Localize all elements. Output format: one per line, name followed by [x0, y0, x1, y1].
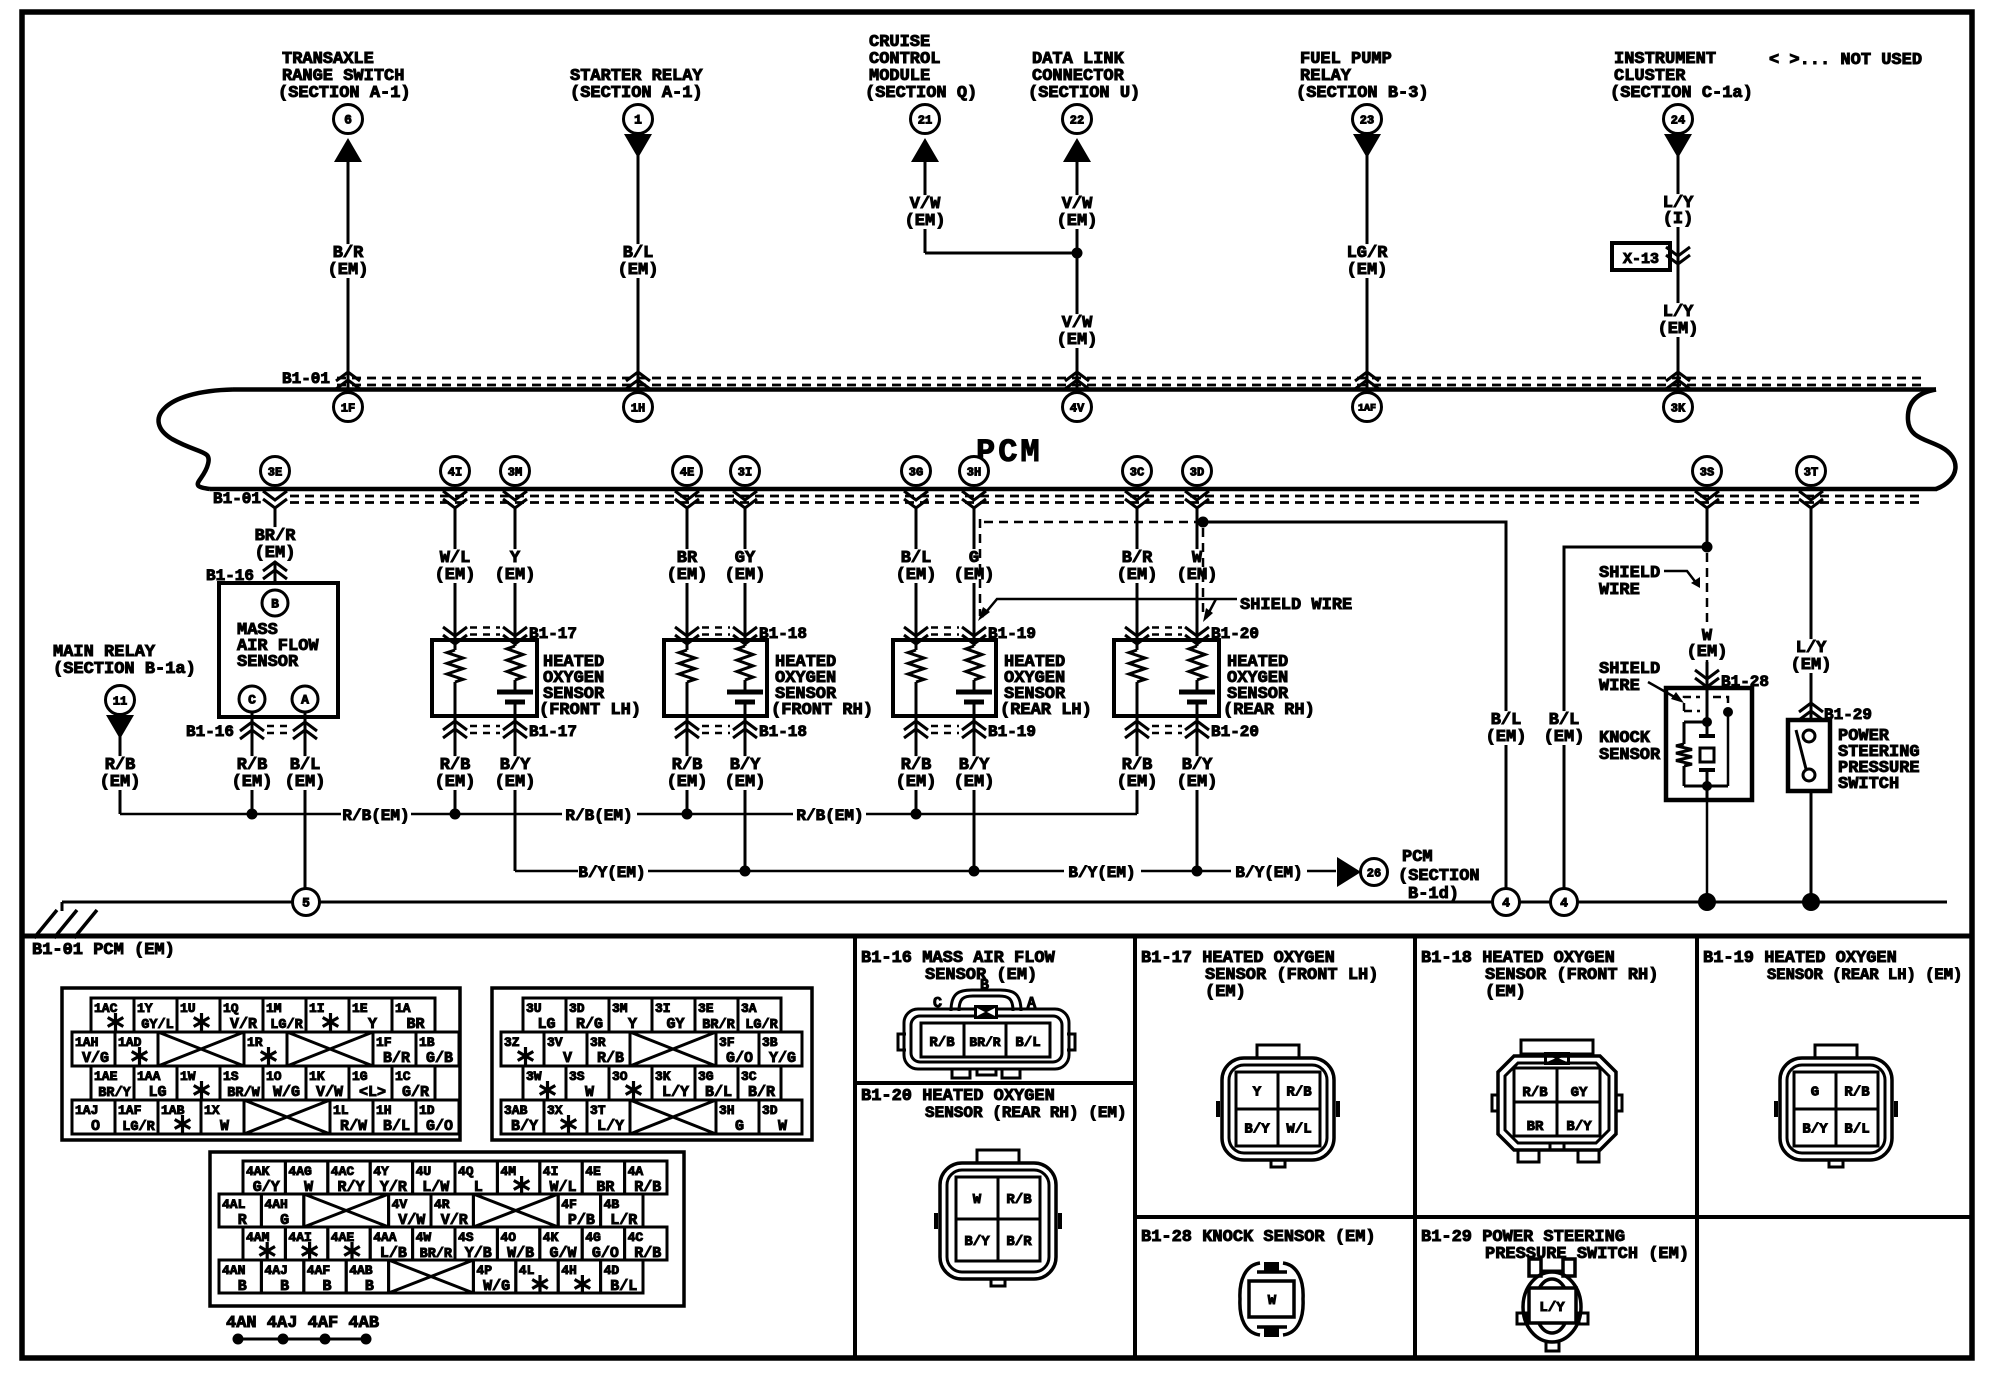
- svg-text:PCM: PCM: [1402, 848, 1433, 867]
- svg-text:B1-01: B1-01: [213, 490, 261, 508]
- transaxle range switch label: [278, 50, 411, 103]
- svg-text:SENSOR: SENSOR: [1599, 746, 1661, 765]
- svg-text:SENSOR: SENSOR: [237, 653, 299, 672]
- arrow up to transaxle range switch: [334, 138, 362, 162]
- column divider 3: [1413, 936, 1417, 1358]
- svg-text:1M: 1M: [266, 1001, 282, 1016]
- connector B1-28 chevron: [1695, 662, 1769, 691]
- svg-text:1F: 1F: [341, 401, 355, 415]
- column divider 4: [1695, 936, 1699, 1358]
- svg-text:1AF: 1AF: [1358, 404, 1376, 415]
- svg-text:(FRONT LH): (FRONT LH): [539, 701, 641, 720]
- ground junction PSP switch: [1802, 893, 1820, 911]
- svg-text:3M: 3M: [508, 465, 522, 479]
- ground bus line: [62, 901, 1947, 904]
- svg-text:WIRE: WIRE: [1599, 677, 1640, 696]
- svg-text:(EM): (EM): [1544, 728, 1585, 747]
- svg-text:(EM): (EM): [1117, 773, 1158, 792]
- PCM pin 4I: [441, 457, 470, 486]
- svg-text:SHIELD WIRE: SHIELD WIRE: [1240, 596, 1352, 615]
- svg-text:1F: 1F: [376, 1035, 392, 1050]
- svg-text:B/Y: B/Y: [1802, 1122, 1828, 1138]
- svg-text:1C: 1C: [395, 1069, 411, 1084]
- svg-text:3D: 3D: [569, 1001, 585, 1016]
- svg-text:1G: 1G: [352, 1069, 368, 1084]
- svg-text:B/Y: B/Y: [1566, 1119, 1592, 1135]
- svg-text:B: B: [271, 597, 279, 612]
- wire W/L (EM) from bus to HO2S FRONT LH: [433, 508, 478, 640]
- knock sensor label: [1599, 729, 1661, 765]
- shield wire dashed at rear LH G wire: [979, 519, 982, 616]
- svg-text:W: W: [778, 1118, 787, 1135]
- svg-text:(EM): (EM): [667, 773, 708, 792]
- svg-text:R/W: R/W: [340, 1118, 367, 1135]
- svg-text:1E: 1E: [352, 1001, 368, 1016]
- svg-text:G: G: [735, 1118, 744, 1135]
- svg-text:(EM): (EM): [1205, 983, 1246, 1002]
- svg-text:(SECTION Q): (SECTION Q): [865, 84, 977, 103]
- svg-text:(SECTION: (SECTION: [1398, 867, 1480, 886]
- svg-text:23: 23: [1360, 113, 1374, 127]
- B1-18 heated oxygen sensor front RH connector drawing: [1492, 1040, 1622, 1162]
- svg-text:3C: 3C: [741, 1069, 757, 1084]
- connector B1-18 top chevrons: [675, 625, 807, 644]
- svg-text:1AF: 1AF: [118, 1103, 142, 1118]
- PCM pin 3M: [501, 457, 530, 486]
- MAF pin A: [292, 686, 318, 712]
- svg-text:B/R: B/R: [748, 1084, 775, 1101]
- cruise control module connector circle 21: [911, 105, 940, 134]
- junction R/B bus at front RH: [682, 809, 693, 820]
- svg-text:4I: 4I: [543, 1164, 559, 1179]
- junction 3S shield: [1702, 542, 1713, 553]
- svg-text:1U: 1U: [180, 1001, 196, 1016]
- PCM connector B1-01 top bus: [159, 370, 1956, 489]
- fuel pump relay connector circle 23: [1353, 105, 1382, 134]
- svg-text:W: W: [1268, 1293, 1277, 1309]
- svg-text:(EM): (EM): [435, 566, 476, 585]
- svg-text:(EM): (EM): [1177, 773, 1218, 792]
- shield wire label rear sensors: [978, 596, 1352, 622]
- svg-text:4AJ: 4AJ: [264, 1263, 287, 1278]
- connector B1-20 top chevrons: [1125, 625, 1259, 644]
- svg-text:G/B: G/B: [426, 1050, 453, 1067]
- svg-text:4K: 4K: [543, 1230, 559, 1245]
- svg-text:(SECTION A-1): (SECTION A-1): [570, 84, 703, 103]
- instrument cluster label: [1610, 50, 1753, 103]
- svg-text:(EM): (EM): [896, 566, 937, 585]
- svg-text:LG: LG: [537, 1016, 555, 1033]
- svg-text:G/R: G/R: [402, 1084, 429, 1101]
- svg-text:21: 21: [918, 113, 932, 127]
- svg-text:1R: 1R: [247, 1035, 263, 1050]
- svg-text:WIRE: WIRE: [1599, 581, 1640, 600]
- svg-text:3T: 3T: [590, 1103, 606, 1118]
- svg-text:R/B(EM): R/B(EM): [796, 807, 863, 825]
- svg-text:Y: Y: [628, 1016, 637, 1033]
- power steering pressure switch label: [1838, 727, 1920, 794]
- svg-text:1L: 1L: [333, 1103, 349, 1118]
- ground connector circle 5: [293, 889, 320, 916]
- svg-text:3F: 3F: [719, 1035, 735, 1050]
- PCM pin 3G: [902, 457, 931, 486]
- wire B/L (EM) from starter relay to 1H: [616, 155, 661, 391]
- PCM pin 1AF: [1353, 393, 1382, 422]
- svg-text:B/Y(EM): B/Y(EM): [1235, 864, 1302, 882]
- svg-text:3I: 3I: [655, 1001, 671, 1016]
- svg-text:B1-20: B1-20: [1211, 723, 1259, 741]
- svg-text:(EM): (EM): [725, 566, 766, 585]
- svg-text:1H: 1H: [631, 401, 645, 415]
- svg-text:W/G: W/G: [273, 1084, 300, 1101]
- ganged pins 4AN 4AJ 4AF 4AB: [226, 1314, 379, 1345]
- svg-text:22: 22: [1070, 113, 1084, 127]
- heated oxygen sensor (FRONT RH) label: [771, 653, 873, 720]
- svg-text:(EM): (EM): [1791, 656, 1832, 675]
- svg-text:(SECTION B-1a): (SECTION B-1a): [53, 660, 196, 679]
- heated oxygen sensor (REAR RH) label: [1223, 653, 1315, 720]
- PCM pin 3I: [731, 457, 760, 486]
- junction R/B bus at front LH: [450, 809, 461, 820]
- wire LG/R (EM) from fuel pump relay to 1AF: [1345, 155, 1390, 391]
- arrow to PCM section B-1d: [1337, 857, 1361, 887]
- svg-text:LG/R: LG/R: [122, 1120, 155, 1135]
- svg-text:3G: 3G: [909, 465, 923, 479]
- MAF pin C: [239, 686, 265, 712]
- svg-text:1D: 1D: [419, 1103, 435, 1118]
- svg-text:4U: 4U: [416, 1164, 432, 1179]
- svg-text:(EM): (EM): [667, 566, 708, 585]
- connector B1-17 top chevrons: [443, 625, 577, 644]
- wire B/Y (EM) from HO2S rear RH: [1175, 716, 1220, 871]
- svg-text:R/G: R/G: [576, 1016, 603, 1033]
- wire R/B (EM) from HO2S rear LH: [894, 716, 939, 814]
- wire B/Y (EM) from HO2S front LH: [493, 716, 538, 871]
- svg-text:4M: 4M: [500, 1164, 516, 1179]
- svg-text:B/L: B/L: [1015, 1035, 1040, 1051]
- svg-text:(SECTION A-1): (SECTION A-1): [278, 84, 411, 103]
- svg-text:4O: 4O: [500, 1230, 516, 1245]
- B1-18 section header: [1421, 949, 1658, 1002]
- svg-text:1AA: 1AA: [137, 1069, 161, 1084]
- wire W (EM) from bus to HO2S REAR RH: [1175, 508, 1220, 640]
- svg-text:4V: 4V: [392, 1197, 408, 1212]
- ground connector circle 4 left: [1493, 889, 1520, 916]
- column divider 2: [1133, 936, 1137, 1358]
- svg-text:3S: 3S: [1700, 465, 1714, 479]
- svg-text:1W: 1W: [180, 1069, 196, 1084]
- arrow down from fuel pump relay: [1353, 134, 1381, 158]
- B1-16 MAF connector drawing: [898, 977, 1075, 1078]
- svg-text:B1-28 KNOCK SENSOR (EM): B1-28 KNOCK SENSOR (EM): [1141, 1228, 1376, 1247]
- svg-text:4D: 4D: [604, 1263, 620, 1278]
- svg-text:B: B: [280, 1278, 289, 1295]
- shield wire dashed 3S: [1685, 553, 1730, 662]
- wire B/R (EM) from 1F to transaxle range switch: [326, 160, 371, 391]
- svg-text:V/R: V/R: [230, 1016, 257, 1033]
- svg-text:GY: GY: [1571, 1085, 1588, 1101]
- svg-text:R/B: R/B: [1844, 1085, 1870, 1101]
- svg-text:B1-19: B1-19: [988, 723, 1036, 741]
- svg-text:W: W: [973, 1192, 982, 1208]
- B1-20 heated oxygen sensor rear RH connector drawing: [936, 1150, 1060, 1286]
- transaxle range switch connector circle 6: [334, 105, 363, 134]
- svg-text:W/G: W/G: [483, 1278, 510, 1295]
- svg-text:4AA: 4AA: [373, 1230, 397, 1245]
- connector B1-19 bottom chevrons: [904, 721, 1036, 741]
- bottom section divider: [22, 934, 1972, 939]
- B1-16 section header: [861, 949, 1056, 985]
- junction B/Y bus at rear LH: [969, 866, 980, 877]
- svg-text:3K: 3K: [1671, 401, 1686, 415]
- shield wire label upper right: [1599, 564, 1700, 600]
- heated oxygen sensor (REAR LH): [893, 640, 996, 716]
- main relay connector circle 11: [106, 686, 135, 715]
- junction R/B bus at rear LH: [911, 809, 922, 820]
- svg-text:4R: 4R: [434, 1197, 450, 1212]
- svg-text:L/Y: L/Y: [1539, 1300, 1565, 1316]
- wire R/B (EM) from HO2S front LH: [433, 716, 478, 814]
- svg-text:4AK: 4AK: [246, 1164, 270, 1179]
- mass air flow sensor box: [219, 583, 338, 717]
- svg-text:(EM): (EM): [232, 773, 273, 792]
- B1-01 bottom bus connector chevrons: [263, 491, 1823, 508]
- fuel pump relay label: [1296, 50, 1429, 103]
- svg-text:B/Y(EM): B/Y(EM): [1068, 864, 1135, 882]
- svg-text:4A: 4A: [628, 1164, 644, 1179]
- wire 3S to knock sensor: [1706, 508, 1709, 547]
- wire B/L (EM) from bus to HO2S REAR LH: [894, 508, 939, 640]
- svg-text:(EM): (EM): [1177, 566, 1218, 585]
- knock sensor: [1666, 688, 1752, 800]
- svg-text:4Y: 4Y: [373, 1164, 389, 1179]
- not used legend: [1769, 51, 1922, 70]
- svg-text:B: B: [322, 1278, 331, 1295]
- svg-text:B: B: [365, 1278, 374, 1295]
- svg-text:Y: Y: [368, 1016, 377, 1033]
- wire BR/R (EM) from 3E to MAF sensor: [253, 508, 298, 583]
- svg-text:(EM): (EM): [495, 566, 536, 585]
- svg-text:(EM): (EM): [1485, 983, 1526, 1002]
- svg-text:<L>: <L>: [359, 1084, 386, 1101]
- svg-text:3W: 3W: [526, 1069, 542, 1084]
- svg-text:(SECTION C-1a): (SECTION C-1a): [1610, 84, 1753, 103]
- B1-28 knock sensor connector drawing: [1240, 1262, 1303, 1337]
- svg-text:3D: 3D: [1190, 465, 1204, 479]
- divider B1-18/B1-29: [1415, 1215, 1697, 1219]
- svg-text:V: V: [563, 1050, 572, 1067]
- svg-text:B1-18: B1-18: [759, 723, 807, 741]
- svg-text:3R: 3R: [590, 1035, 606, 1050]
- shield wire dashed at rear RH W wire: [1202, 528, 1205, 616]
- svg-text:(EM): (EM): [1057, 331, 1098, 350]
- PCM pin 3D: [1183, 457, 1212, 486]
- svg-text:4H: 4H: [561, 1263, 577, 1278]
- svg-text:4AL: 4AL: [222, 1197, 246, 1212]
- heated oxygen sensor (FRONT LH): [432, 640, 537, 716]
- svg-text:B/L: B/L: [705, 1084, 732, 1101]
- svg-text:4AH: 4AH: [264, 1197, 287, 1212]
- shield wire label at knock sensor: [1599, 660, 1684, 703]
- svg-text:3C: 3C: [1130, 465, 1144, 479]
- PCM label: [976, 434, 1043, 471]
- svg-text:(EM): (EM): [328, 261, 369, 280]
- data link connector circle 22: [1063, 105, 1092, 134]
- svg-text:3E: 3E: [698, 1001, 714, 1016]
- svg-text:3U: 3U: [526, 1001, 542, 1016]
- svg-text:4E: 4E: [585, 1164, 601, 1179]
- svg-text:4W: 4W: [416, 1230, 432, 1245]
- svg-text:Y/G: Y/G: [769, 1050, 796, 1067]
- svg-text:1O: 1O: [266, 1069, 282, 1084]
- svg-text:24: 24: [1671, 113, 1685, 127]
- svg-text:1X: 1X: [204, 1103, 220, 1118]
- svg-text:B/R: B/R: [383, 1050, 410, 1067]
- svg-text:< >... NOT USED: < >... NOT USED: [1769, 51, 1922, 70]
- wire V/W (EM) from cruise control module: [903, 160, 948, 253]
- svg-text:1I: 1I: [309, 1001, 325, 1016]
- svg-text:26: 26: [1367, 866, 1381, 880]
- connector B1-29 chevron: [1799, 703, 1872, 724]
- connector B1-16 top chevron: [206, 562, 287, 585]
- svg-text:R/B(EM): R/B(EM): [342, 807, 409, 825]
- svg-text:4Q: 4Q: [458, 1164, 474, 1179]
- PCM section B-1d label: [1398, 848, 1480, 904]
- PCM pin 3K: [1664, 393, 1693, 422]
- svg-text:4L: 4L: [519, 1263, 535, 1278]
- svg-text:4: 4: [1502, 896, 1510, 911]
- PCM connector circle 26: [1361, 859, 1388, 886]
- svg-text:4AN 4AJ 4AF 4AB: 4AN 4AJ 4AF 4AB: [226, 1314, 379, 1333]
- svg-text:A: A: [301, 693, 309, 708]
- connector X-13: [1612, 243, 1690, 270]
- wire Y (EM) from bus to HO2S FRONT LH: [493, 508, 538, 640]
- junction V/W wires: [1072, 248, 1083, 259]
- svg-text:(EM): (EM): [435, 773, 476, 792]
- heated oxygen sensor (REAR LH) label: [1000, 653, 1092, 720]
- R/B (EM) ground wire bus: [120, 807, 1137, 825]
- B1-17 section header: [1141, 949, 1378, 1002]
- wire B/Y (EM) from HO2S front RH: [723, 716, 768, 871]
- svg-text:4AB: 4AB: [349, 1263, 373, 1278]
- svg-text:X-13: X-13: [1623, 251, 1659, 268]
- wire R/B (EM) from main relay: [98, 736, 143, 814]
- svg-text:3H: 3H: [967, 465, 981, 479]
- wire GY (EM) from bus to HO2S FRONT RH: [723, 508, 768, 640]
- wire B/R (EM) from bus to HO2S REAR RH: [1115, 508, 1160, 640]
- svg-text:L/Y: L/Y: [597, 1118, 624, 1135]
- svg-text:GY: GY: [666, 1016, 684, 1033]
- wire BR (EM) from bus to HO2S FRONT RH: [665, 508, 710, 640]
- svg-text:4: 4: [1560, 896, 1568, 911]
- PCM pin 4E: [673, 457, 702, 486]
- svg-text:3E: 3E: [268, 465, 282, 479]
- B1-20 section header: [861, 1087, 1127, 1122]
- svg-text:(EM): (EM): [1687, 643, 1728, 662]
- svg-text:B/Y: B/Y: [964, 1234, 990, 1250]
- wire G (EM) from bus to HO2S REAR LH: [952, 508, 997, 640]
- ground connector circle 4 right: [1551, 889, 1578, 916]
- starter relay connector circle 1: [624, 105, 653, 134]
- svg-text:3K: 3K: [655, 1069, 671, 1084]
- svg-text:3O: 3O: [612, 1069, 628, 1084]
- B1-17 heated oxygen sensor front LH connector drawing: [1218, 1045, 1338, 1167]
- wire R/B (EM) from MAF pin C: [230, 712, 275, 814]
- svg-text:BR: BR: [1527, 1119, 1544, 1135]
- arrow down from starter relay: [624, 134, 652, 158]
- svg-text:1AH: 1AH: [75, 1035, 98, 1050]
- svg-text:11: 11: [113, 694, 127, 708]
- svg-text:L/Y: L/Y: [662, 1084, 689, 1101]
- svg-text:(EM): (EM): [954, 566, 995, 585]
- svg-text:1B: 1B: [419, 1035, 435, 1050]
- B1-01 PCM connector shell 3: [210, 1152, 684, 1306]
- svg-text:R/B: R/B: [1006, 1192, 1032, 1208]
- column divider 1: [853, 936, 857, 1358]
- svg-text:(EM): (EM): [100, 773, 141, 792]
- divider B1-16/B1-20: [855, 1081, 1135, 1085]
- svg-text:4AN: 4AN: [222, 1263, 245, 1278]
- svg-text:4P: 4P: [476, 1263, 492, 1278]
- svg-text:R/B(EM): R/B(EM): [565, 807, 632, 825]
- svg-text:3I: 3I: [738, 465, 752, 479]
- svg-text:1AJ: 1AJ: [75, 1103, 98, 1118]
- svg-text:4I: 4I: [448, 465, 462, 479]
- svg-text:1H: 1H: [376, 1103, 392, 1118]
- junction B/Y bus at front RH: [740, 866, 751, 877]
- svg-text:3A: 3A: [741, 1001, 757, 1016]
- PCM pin 3H: [960, 457, 989, 486]
- cruise control module label: [865, 33, 977, 103]
- B1-28 section header: [1141, 1228, 1376, 1247]
- divider B1-17/B1-28: [1135, 1215, 1415, 1219]
- svg-text:3S: 3S: [569, 1069, 585, 1084]
- wire from 3S junction to circle 4 (B/L EM): [1542, 547, 1707, 889]
- wire PSP switch to ground: [1810, 791, 1813, 902]
- PCM pin 3E: [261, 457, 290, 486]
- svg-text:4AF: 4AF: [307, 1263, 331, 1278]
- wire B/L (EM) from MAF pin A to ground point 5: [283, 712, 328, 889]
- svg-text:R/B: R/B: [597, 1050, 624, 1067]
- svg-text:R/B: R/B: [1522, 1085, 1548, 1101]
- svg-text:(REAR LH): (REAR LH): [1000, 701, 1092, 720]
- svg-text:4S: 4S: [458, 1230, 474, 1245]
- arrow down from main relay: [106, 715, 134, 739]
- svg-text:(EM): (EM): [285, 773, 326, 792]
- main relay label: [53, 643, 196, 679]
- svg-text:R/B: R/B: [929, 1035, 955, 1051]
- svg-text:(EM): (EM): [1347, 261, 1388, 280]
- svg-text:LG: LG: [148, 1084, 166, 1101]
- svg-text:3AB: 3AB: [504, 1103, 528, 1118]
- junction B/Y bus at rear RH: [1192, 866, 1203, 877]
- wire L/Y (EM) from 3T: [1789, 508, 1834, 720]
- svg-text:(I): (I): [1663, 210, 1694, 229]
- PCM pin 3C: [1123, 457, 1152, 486]
- shield wire dashed bus: [984, 521, 1199, 524]
- svg-text:C: C: [248, 693, 256, 708]
- svg-text:(EM): (EM): [905, 212, 946, 231]
- svg-text:G/O: G/O: [426, 1118, 453, 1135]
- instrument cluster connector circle 24: [1664, 105, 1693, 134]
- svg-text:3D: 3D: [762, 1103, 778, 1118]
- connector B1-19 top chevrons: [904, 625, 1036, 644]
- heated oxygen sensor (REAR RH): [1114, 640, 1219, 716]
- svg-text:4V: 4V: [1070, 401, 1085, 415]
- connector B1-18 bottom chevrons: [675, 721, 807, 741]
- B/Y (EM) ground wire bus to PCM 26: [515, 864, 1336, 882]
- svg-text:B1-16: B1-16: [186, 723, 234, 741]
